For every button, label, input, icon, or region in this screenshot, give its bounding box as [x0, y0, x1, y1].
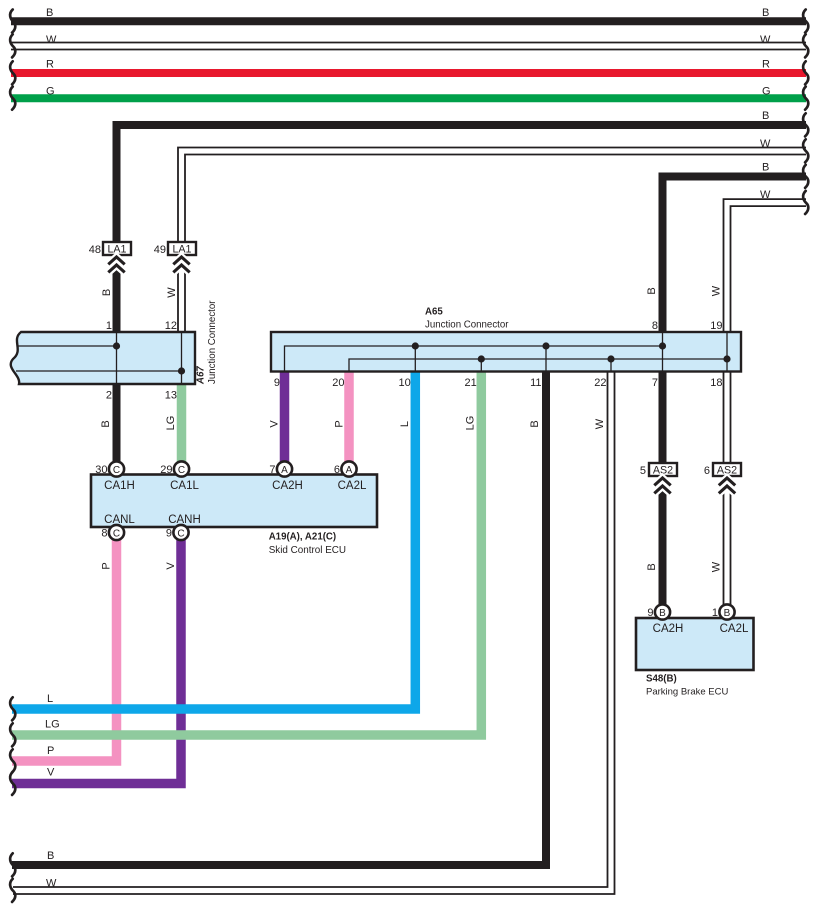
svg-text:W: W	[594, 418, 606, 429]
A65 junction dot pin21	[478, 355, 485, 362]
svg-text:A65: A65	[425, 307, 443, 318]
wire B main bus top	[11, 17, 806, 25]
skid ECU pin 8 circle C	[109, 525, 124, 540]
svg-text:Parking Brake ECU: Parking Brake ECU	[646, 687, 729, 698]
svg-text:B: B	[101, 289, 113, 296]
squiggle left wire W top	[10, 34, 15, 57]
squiggle right wire B row2	[803, 113, 808, 136]
squiggle left wire R	[10, 61, 15, 84]
A65 junction dot pin18 line	[723, 355, 730, 362]
svg-text:12: 12	[165, 320, 177, 332]
connector AS2 pin5 chevron	[654, 478, 670, 493]
svg-text:9: 9	[647, 607, 653, 619]
svg-text:B: B	[659, 608, 666, 619]
svg-text:LG: LG	[465, 416, 477, 431]
svg-text:B: B	[100, 420, 112, 427]
svg-text:10: 10	[399, 377, 411, 389]
wire V A65 pin9 to skid ECU pin7	[280, 370, 290, 462]
svg-text:9: 9	[274, 377, 280, 389]
svg-text:C: C	[113, 528, 120, 539]
svg-text:5: 5	[640, 465, 646, 477]
connector LA1 pin48 chevron	[108, 257, 124, 272]
svg-text:A67: A67	[196, 366, 207, 385]
svg-text:7: 7	[269, 464, 275, 476]
junction connector A67 (box with torn left edge)	[11, 332, 195, 384]
squiggle left wire L	[10, 697, 15, 720]
svg-text:7: 7	[652, 377, 658, 389]
wire LG A67 pin13 to skid ECU pin29	[177, 384, 187, 462]
svg-text:B: B	[46, 7, 53, 19]
parking ECU pin 9 circle B	[655, 604, 670, 619]
svg-text:8: 8	[101, 528, 107, 540]
svg-text:S48(B): S48(B)	[646, 674, 677, 685]
svg-text:CANH: CANH	[168, 514, 201, 526]
svg-text:B: B	[762, 110, 769, 122]
rotated wire labels	[100, 285, 723, 572]
squiggle left wire LG	[10, 723, 15, 746]
svg-text:13: 13	[165, 390, 177, 402]
svg-text:G: G	[46, 86, 55, 98]
svg-text:R: R	[46, 58, 54, 70]
svg-text:B: B	[762, 162, 769, 174]
squiggle right wire G	[803, 87, 808, 110]
svg-text:Junction Connector: Junction Connector	[207, 300, 218, 384]
svg-text:C: C	[178, 465, 185, 476]
svg-text:B: B	[646, 287, 658, 294]
svg-text:Junction Connector: Junction Connector	[425, 320, 509, 331]
wire P CANL: skid ECU pin8 to left edge	[12, 539, 117, 761]
wire B row2: corner to LA1-48 to A67 pin1	[117, 125, 807, 332]
svg-text:30: 30	[95, 464, 107, 476]
wire W pin18 core	[724, 372, 729, 606]
A65 riser pin 11	[545, 346, 547, 371]
svg-text:B: B	[762, 7, 769, 19]
svg-text:48: 48	[89, 244, 101, 256]
wire LG: A65 pin21 to left edge	[12, 370, 481, 735]
svg-text:P: P	[334, 420, 346, 427]
svg-text:CA2L: CA2L	[720, 623, 749, 635]
wire B A67 pin2 to skid ECU pin30	[113, 384, 121, 462]
A67 internal bus line 1	[17, 345, 117, 347]
connector/box name labels	[104, 300, 749, 698]
skid ECU pin 6 circle A	[341, 461, 356, 476]
svg-text:49: 49	[154, 244, 166, 256]
wire W row3: corner to A65 pin19 (casing)	[727, 203, 806, 332]
svg-text:CA2H: CA2H	[653, 623, 684, 635]
svg-text:8: 8	[652, 320, 658, 332]
wire B bottom: A65 pin11 to left edge	[12, 370, 546, 865]
squiggle left wire B top	[10, 10, 15, 33]
svg-text:G: G	[762, 86, 771, 98]
squiggle right wire B row3	[803, 165, 808, 188]
squiggle right wire R	[803, 61, 808, 84]
svg-text:6: 6	[334, 464, 340, 476]
svg-text:W: W	[760, 34, 771, 46]
wire W main bus (core)	[11, 43, 806, 48]
svg-text:CA2L: CA2L	[338, 480, 367, 492]
svg-text:11: 11	[530, 377, 541, 389]
squiggle left wire P	[10, 749, 15, 772]
svg-text:L: L	[399, 421, 411, 427]
svg-text:B: B	[47, 850, 54, 862]
wire V CANH: skid ECU pin9 to left edge	[12, 539, 181, 784]
A65 internal bus line 2	[349, 359, 727, 371]
svg-text:LG: LG	[45, 719, 60, 731]
svg-text:CA1H: CA1H	[104, 480, 135, 492]
svg-text:22: 22	[594, 377, 606, 389]
svg-text:W: W	[46, 34, 57, 46]
A67 internal through line pin12-pin13	[181, 333, 183, 383]
A65 internal through line pin8-pin7	[662, 333, 664, 371]
wire W A65 pin18 to AS2-6 to parking ECU pin1 (casing)	[723, 370, 732, 605]
svg-text:A: A	[281, 465, 288, 476]
skid ECU pin 30 circle C	[109, 461, 124, 476]
wire W row2 core	[182, 151, 807, 332]
wire W bottom core	[13, 370, 611, 891]
svg-text:2: 2	[106, 390, 112, 402]
wire G main bus	[11, 94, 806, 102]
skid ECU pin 9 circle C	[173, 525, 188, 540]
svg-text:18: 18	[710, 377, 722, 389]
svg-text:W: W	[711, 285, 723, 296]
svg-text:L: L	[47, 693, 53, 705]
A67 junction dot bus2	[178, 367, 185, 374]
A67 internal through line pin1-pin2	[116, 333, 118, 383]
svg-text:20: 20	[332, 377, 344, 389]
svg-text:B: B	[724, 608, 731, 619]
svg-text:CANL: CANL	[104, 514, 135, 526]
svg-text:CA1L: CA1L	[170, 480, 199, 492]
parking brake ECU box S48(B)	[636, 618, 754, 670]
A65 junction dot pin10	[412, 342, 419, 349]
A67 junction dot bus1	[113, 342, 120, 349]
squiggle right wire W row3	[803, 191, 808, 214]
svg-text:29: 29	[160, 464, 172, 476]
svg-text:V: V	[165, 562, 177, 570]
wire B row3: corner to A65 pin8	[663, 177, 807, 333]
svg-text:V: V	[269, 420, 281, 428]
skid control ECU box A19(A),A21(C)	[91, 475, 377, 528]
A65 riser pin 21	[480, 359, 482, 371]
skid ECU pin 29 circle C	[174, 461, 189, 476]
A65 junction dot pin22	[607, 355, 614, 362]
squiggle left wire W bottom	[10, 879, 15, 902]
svg-text:C: C	[113, 465, 120, 476]
svg-text:LG: LG	[165, 416, 177, 431]
squiggle right wire W top	[803, 34, 808, 57]
wire W main bus (casing)	[11, 42, 806, 51]
parking ECU pin 1 circle B	[719, 604, 734, 619]
svg-text:W: W	[760, 189, 771, 201]
svg-text:C: C	[177, 528, 184, 539]
connector AS2 pin6 chevron	[719, 478, 735, 493]
svg-text:9: 9	[166, 528, 172, 540]
svg-text:W: W	[711, 561, 723, 572]
junction connector A65 (box)	[271, 332, 741, 372]
wire W row3 core	[727, 203, 806, 332]
svg-text:P: P	[47, 745, 54, 757]
A65 internal through line pin19-pin18	[726, 333, 728, 371]
wire P A65 pin20 to skid ECU pin6	[344, 370, 354, 462]
A65 riser pin 22	[610, 359, 612, 371]
squiggle left wire G	[10, 87, 15, 110]
squiggle right wire W row2	[803, 139, 808, 162]
wire B A65 pin7 to AS2-5 to parking ECU pin9	[659, 370, 667, 605]
connector LA1 pin48 box	[103, 242, 131, 256]
svg-text:P: P	[101, 562, 113, 569]
svg-text:B: B	[646, 563, 658, 570]
svg-text:21: 21	[465, 377, 477, 389]
svg-text:19: 19	[710, 320, 722, 332]
connector AS2 pin5 box	[649, 463, 677, 477]
svg-text:6: 6	[704, 465, 710, 477]
connector AS2 pin6 box	[713, 463, 741, 477]
A65 internal bus line 1	[285, 346, 663, 371]
wire W row2: corner to LA1-49 to A67 pin12 (casing)	[182, 151, 807, 332]
svg-text:W: W	[46, 878, 57, 890]
A65 junction dot pin8 line	[659, 342, 666, 349]
squiggle left wire V	[10, 772, 15, 795]
svg-text:W: W	[166, 287, 178, 298]
squiggle left wire B bottom	[10, 853, 15, 876]
connector LA1 pin49 box	[168, 242, 196, 256]
svg-text:V: V	[47, 767, 55, 779]
wire W bottom: A65 pin22 to left edge (casing)	[13, 370, 611, 891]
connector LA1 pin49 chevron	[173, 257, 189, 272]
squiggle right wire B top	[803, 10, 808, 33]
svg-text:B: B	[529, 420, 541, 427]
svg-text:1: 1	[106, 320, 112, 332]
wire L: A65 pin10 to left edge	[12, 370, 415, 709]
svg-text:A: A	[346, 465, 353, 476]
wire R main bus	[11, 69, 806, 77]
svg-text:Skid Control ECU: Skid Control ECU	[269, 545, 346, 556]
svg-text:R: R	[762, 58, 770, 70]
svg-text:1: 1	[712, 607, 718, 619]
svg-text:W: W	[760, 138, 771, 150]
A67 internal bus line 2	[16, 370, 182, 372]
svg-text:A19(A), A21(C): A19(A), A21(C)	[269, 532, 336, 543]
A65 junction dot pin11	[542, 342, 549, 349]
svg-text:CA2H: CA2H	[272, 480, 303, 492]
A65 riser pin 10	[414, 346, 416, 371]
skid ECU pin 7 circle A	[277, 461, 292, 476]
